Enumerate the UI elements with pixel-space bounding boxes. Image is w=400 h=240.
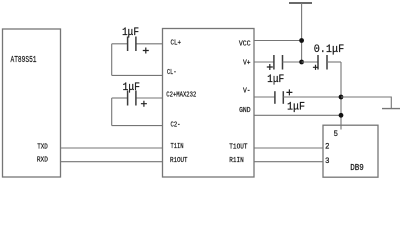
wire CL+ pin to C1 right plate (136, 43, 163, 45)
C3 left plate (273, 55, 275, 70)
wire rail to C5 left plate (302, 61, 318, 63)
wire to C2- pin (112, 125, 163, 127)
svg-text:5: 5 (334, 129, 339, 139)
wire GND pin to gnd net (254, 114, 341, 116)
svg-text:VCC: VCC (239, 40, 251, 48)
svg-text:3: 3 (325, 156, 330, 166)
svg-text:C2+MAX232: C2+MAX232 (166, 91, 196, 99)
capacitor C4 1uF on V- (254, 89, 341, 113)
svg-text:2: 2 (325, 141, 330, 151)
junction dot VCC (299, 38, 304, 43)
wire C1 down leg (111, 44, 113, 76)
wire C2+ pin to C2 right plate (136, 97, 163, 99)
wire V+ pin to C3 left plate (254, 61, 274, 63)
wire C5 right plate to gnd net (327, 61, 341, 63)
svg-text:DB9: DB9 (350, 163, 364, 173)
wire RXD to R1OUT (61, 161, 163, 163)
wire C1 left plate to corner (112, 43, 128, 45)
svg-text:1μF: 1μF (267, 74, 284, 86)
wire C2 down leg (111, 98, 113, 126)
svg-text:T1IN: T1IN (171, 143, 184, 151)
svg-text:V-: V- (243, 88, 251, 96)
wire C2 left plate to corner (112, 97, 128, 99)
C2 left plate (127, 91, 129, 106)
svg-text:V+: V+ (243, 59, 251, 67)
svg-text:CL+: CL+ (171, 40, 182, 48)
svg-text:R1OUT: R1OUT (170, 157, 188, 165)
junction dot GND (339, 113, 344, 118)
C1 left plate (127, 37, 129, 52)
svg-text:0.1μF: 0.1μF (314, 44, 345, 56)
capacitor C2 1uF between C2+ and C2- (112, 82, 163, 126)
svg-text:T1OUT: T1OUT (229, 143, 248, 151)
svg-text:AT89S51: AT89S51 (11, 54, 37, 65)
IC U2 AT89S51 box (3, 29, 61, 177)
junction dot V- net (339, 95, 344, 100)
C5 left plate (317, 55, 319, 70)
connector J1 DB9 box (323, 125, 378, 177)
junction dot V+ (299, 60, 304, 65)
power symbol stem (301, 3, 303, 62)
C4 right plate (282, 91, 284, 104)
svg-text:GND: GND (239, 107, 251, 115)
C5 right plate (326, 55, 328, 70)
capacitor C5 0.1uF decoupling (302, 44, 345, 70)
wire to ground symbol (341, 97, 391, 109)
capacitor C1 1uF between CL+ and CL- (112, 27, 163, 75)
wire to CL- pin (112, 74, 163, 76)
wire TXD to T1IN (61, 147, 163, 149)
wire C4 right plate to gnd net (283, 96, 341, 98)
svg-text:1μF: 1μF (287, 101, 305, 113)
IC U1 MAX232 box (163, 29, 255, 178)
wire V- pin to C4 left plate (254, 96, 275, 98)
svg-text:CL-: CL- (167, 69, 177, 77)
ground symbol bar (382, 108, 400, 110)
wire VCC pin to power rail (254, 40, 302, 42)
wire R1IN to DB9 pin 3 (254, 161, 323, 163)
capacitor C3 1uF on V+ (254, 55, 302, 86)
C5 polarity plus (313, 65, 318, 70)
power symbol VCC bar (289, 2, 312, 4)
C4 polarity plus (286, 89, 292, 95)
C3 right plate (282, 55, 284, 70)
wire C3 right plate to rail (283, 61, 302, 63)
svg-text:TXD: TXD (37, 143, 48, 151)
svg-text:1μF: 1μF (123, 82, 141, 94)
svg-text:1μF: 1μF (122, 27, 139, 39)
C1 polarity plus (143, 48, 149, 54)
C2 right plate (135, 91, 137, 106)
svg-text:RXD: RXD (37, 156, 48, 164)
svg-text:R1IN: R1IN (229, 157, 243, 165)
C4 left plate (274, 91, 276, 104)
C3 polarity plus (267, 64, 273, 70)
wire ground net vertical (340, 62, 342, 130)
wire T1OUT to DB9 pin 2 (254, 147, 323, 149)
svg-text:C2-: C2- (171, 121, 181, 129)
C2 polarity plus (141, 101, 147, 107)
C1 right plate (135, 37, 137, 52)
